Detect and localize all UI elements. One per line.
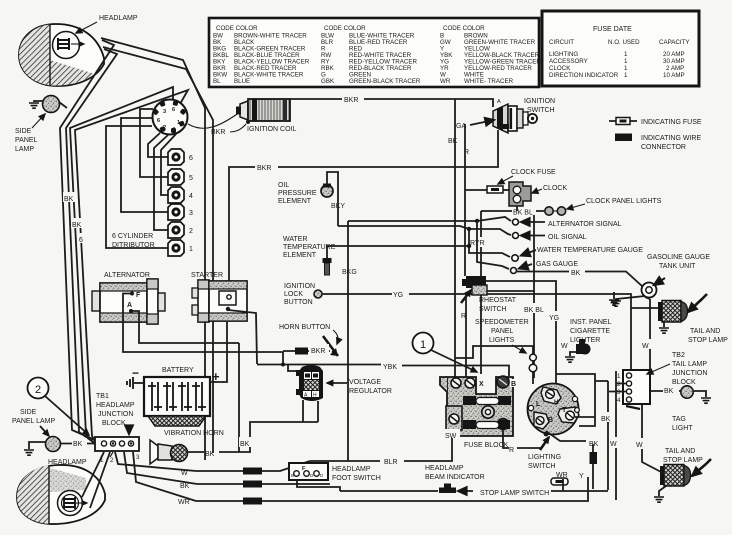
wire distributor to coil xyxy=(188,112,240,128)
wire TB2 to tag light + BK xyxy=(650,384,681,395)
svg-text:BLR: BLR xyxy=(384,459,398,466)
svg-text:BK: BK xyxy=(601,416,611,423)
wire alternator F xyxy=(123,294,283,364)
TB2 tail lamp junction block xyxy=(609,370,650,409)
label SW xyxy=(444,429,460,440)
svg-text:BEAM INDICATOR: BEAM INDICATOR xyxy=(425,474,485,481)
svg-text:30 AMP: 30 AMP xyxy=(663,58,685,65)
svg-text:B: B xyxy=(291,473,294,478)
lighting switch xyxy=(528,384,580,437)
wire B lug to BK connector xyxy=(546,431,586,441)
svg-text:HORN BUTTON: HORN BUTTON xyxy=(279,324,330,331)
svg-text:H: H xyxy=(313,393,317,399)
TB2 label + arrow xyxy=(647,352,707,386)
wire vertical x534 BK BL down xyxy=(533,215,535,378)
svg-text:T: T xyxy=(562,407,567,414)
wire bundle L2 xyxy=(66,49,117,444)
legend indicating fuse xyxy=(609,118,702,127)
tail and stop lamp (lower) xyxy=(654,448,711,502)
starter xyxy=(191,272,247,322)
wire vertical x650 W xyxy=(645,297,650,370)
svg-text:CODE COLOR: CODE COLOR xyxy=(324,25,366,32)
headlamp (top left) xyxy=(19,24,104,86)
wire BK BL + clock panel lights xyxy=(481,207,566,217)
wire fuse block R xyxy=(503,430,542,448)
svg-text:FUSE BLOCK: FUSE BLOCK xyxy=(464,442,509,449)
wires TB1 down to headlamp bulb xyxy=(82,452,104,497)
wire + indicating wire connector xyxy=(590,444,598,489)
svg-text:3: 3 xyxy=(136,454,140,461)
wire YBK right into fuse block B xyxy=(402,366,509,377)
svg-text:TAIL LAMP: TAIL LAMP xyxy=(672,361,707,368)
label BK xyxy=(71,218,85,229)
svg-text:TB2: TB2 xyxy=(672,352,685,359)
wire vertical x455 xyxy=(454,99,456,377)
svg-text:GREEN-BLACK TRACER: GREEN-BLACK TRACER xyxy=(349,78,421,85)
wire rheostat to YG vertical xyxy=(486,281,556,384)
clock panel lights label xyxy=(567,198,662,209)
svg-text:3: 3 xyxy=(189,210,193,217)
svg-text:LIGHTS: LIGHTS xyxy=(489,337,515,344)
svg-text:2: 2 xyxy=(35,384,41,396)
svg-text:4: 4 xyxy=(617,397,621,404)
svg-text:ELEMENT: ELEMENT xyxy=(278,198,312,205)
svg-text:4: 4 xyxy=(189,193,193,200)
wire headlamp to right vertical xyxy=(101,38,205,460)
svg-text:PRESSURE: PRESSURE xyxy=(278,190,317,197)
svg-text:BK BL: BK BL xyxy=(524,307,544,314)
gasoline gauge tank unit xyxy=(611,254,710,306)
svg-text:TAIL AND: TAIL AND xyxy=(690,328,720,335)
svg-text:PANEL: PANEL xyxy=(491,328,514,335)
fuse data table xyxy=(542,11,699,86)
wire horn BK xyxy=(187,343,318,458)
svg-text:ALTERNATOR SIGNAL: ALTERNATOR SIGNAL xyxy=(548,221,622,228)
wire vertical x642 to lower tail lamp xyxy=(642,405,663,473)
wire stop lamp line y491 xyxy=(340,490,608,492)
spark plugs 6..1 xyxy=(168,149,193,165)
svg-text:LIGHTER: LIGHTER xyxy=(570,337,600,344)
node 1 circled xyxy=(413,333,478,373)
wire vertical x616 down xyxy=(615,383,617,500)
svg-text:W: W xyxy=(642,343,649,350)
svg-text:BL: BL xyxy=(213,78,221,85)
svg-text:VOLTAGE: VOLTAGE xyxy=(349,379,381,386)
wire BKG vertical xyxy=(347,221,349,461)
svg-text:6: 6 xyxy=(189,155,193,162)
svg-text:SIDE: SIDE xyxy=(20,409,37,416)
gas gauge terminal xyxy=(477,221,578,274)
rheostat switch xyxy=(461,276,487,303)
wire vertical x608 BK xyxy=(595,381,608,490)
clock fuse label xyxy=(498,169,556,184)
svg-text:PANEL: PANEL xyxy=(15,137,38,144)
wire WR bottom xyxy=(178,477,588,506)
svg-text:TANK UNIT: TANK UNIT xyxy=(659,263,696,270)
svg-text:VIBRATION HORN: VIBRATION HORN xyxy=(164,430,224,437)
oil signal terminal xyxy=(338,226,587,241)
svg-text:DIRECTION INDICATOR: DIRECTION INDICATOR xyxy=(549,72,619,79)
svg-text:B: B xyxy=(511,381,516,388)
wire TB1 to BK line xyxy=(124,452,197,484)
wire battery + to starter xyxy=(210,321,227,382)
svg-text:H: H xyxy=(554,399,559,406)
svg-text:1: 1 xyxy=(624,72,628,79)
svg-text:CAPACITY: CAPACITY xyxy=(659,39,689,46)
svg-text:SW: SW xyxy=(445,433,457,440)
svg-text:BK: BK xyxy=(571,270,581,277)
wire W bottom xyxy=(181,461,310,477)
label RYR xyxy=(469,237,490,247)
node junction xyxy=(281,363,285,367)
alternator signal terminal xyxy=(348,217,622,228)
svg-text:FUSE DATE: FUSE DATE xyxy=(593,26,632,33)
wire loop right of lighting switch xyxy=(556,374,595,426)
GA label + arrow xyxy=(456,120,494,130)
svg-text:Y: Y xyxy=(579,473,584,480)
svg-text:BKY: BKY xyxy=(331,203,345,210)
svg-text:IGNITION: IGNITION xyxy=(284,283,315,290)
svg-text:OIL: OIL xyxy=(278,182,289,189)
svg-text:STOP LAMP: STOP LAMP xyxy=(688,337,728,344)
svg-text:WHITE- TRACER: WHITE- TRACER xyxy=(464,78,514,85)
svg-text:TAG: TAG xyxy=(672,416,686,423)
wire side lamp to TB1 xyxy=(61,443,95,445)
svg-text:BK: BK xyxy=(180,483,190,490)
svg-text:TB1: TB1 xyxy=(96,393,109,400)
svg-text:WR: WR xyxy=(556,472,568,479)
ignition switch S1 xyxy=(493,99,537,133)
svg-text:2: 2 xyxy=(163,125,166,131)
wire side panel lamp to bundle xyxy=(59,102,67,108)
ignition lock button xyxy=(284,283,322,306)
svg-text:6 CYLINDER: 6 CYLINDER xyxy=(112,233,153,240)
wire xyxy=(106,126,168,248)
side panel lamp (bottom) xyxy=(12,409,61,455)
wire regulator top to YBK xyxy=(288,364,296,371)
label BK xyxy=(72,438,87,448)
svg-text:3: 3 xyxy=(617,389,621,396)
svg-text:WR: WR xyxy=(178,499,190,506)
wire vertical x563 xyxy=(562,479,564,491)
svg-text:SWITCH: SWITCH xyxy=(527,107,555,114)
svg-text:20 AMP: 20 AMP xyxy=(663,51,685,58)
svg-text:CONNECTOR: CONNECTOR xyxy=(641,144,686,151)
svg-text:SWITCH: SWITCH xyxy=(528,463,556,470)
wire BK bottom xyxy=(180,481,330,491)
svg-text:BK: BK xyxy=(448,138,458,145)
speedometer panel lights xyxy=(455,345,537,384)
svg-text:RHEOSTAT: RHEOSTAT xyxy=(479,297,517,304)
svg-text:1: 1 xyxy=(420,339,426,351)
svg-text:CLOCK FUSE: CLOCK FUSE xyxy=(511,169,556,176)
svg-text:6: 6 xyxy=(157,118,160,124)
svg-text:2: 2 xyxy=(110,457,114,464)
svg-text:HEADLAMP: HEADLAMP xyxy=(332,466,371,473)
svg-text:BKG: BKG xyxy=(342,269,357,276)
svg-text:WR: WR xyxy=(440,78,451,85)
label 6 xyxy=(78,233,86,244)
voltage regulator xyxy=(296,365,323,401)
svg-text:6: 6 xyxy=(172,107,175,113)
svg-text:W: W xyxy=(636,442,643,449)
svg-text:BK: BK xyxy=(240,441,250,448)
wire xyxy=(161,134,176,195)
svg-text:F: F xyxy=(136,292,141,299)
fuse block xyxy=(440,376,517,436)
svg-text:IGNITION COIL: IGNITION COIL xyxy=(247,126,297,133)
wire xyxy=(90,452,110,508)
svg-text:CLOCK: CLOCK xyxy=(549,65,571,72)
svg-text:N.O. USED: N.O. USED xyxy=(608,39,640,46)
svg-text:PANEL LAMP: PANEL LAMP xyxy=(12,418,56,425)
wire bundle L4 (distributor cap) xyxy=(75,90,188,450)
svg-text:TAIL AND: TAIL AND xyxy=(665,448,695,455)
vibration horn xyxy=(150,430,224,464)
wire vertical x465 xyxy=(464,124,466,276)
wire TB1 to WR line xyxy=(133,452,196,501)
wire vertical x481 xyxy=(480,211,482,374)
svg-text:BLOCK: BLOCK xyxy=(102,420,126,427)
voltage regulator label xyxy=(327,379,392,395)
svg-text:BUTTON: BUTTON xyxy=(284,299,313,306)
wire YBK bus xyxy=(257,364,381,366)
svg-text:LIGHT: LIGHT xyxy=(672,425,693,432)
svg-text:ACCESSORY: ACCESSORY xyxy=(549,58,588,65)
svg-text:WATER TEMPERATURE GAUGE: WATER TEMPERATURE GAUGE xyxy=(537,247,643,254)
svg-text:YG: YG xyxy=(393,292,403,299)
ground above lighter xyxy=(609,292,619,305)
water temperature element xyxy=(323,246,470,275)
tail and stop lamp (upper) xyxy=(658,294,728,344)
side panel lamp (top) xyxy=(15,96,60,154)
svg-text:LIGHTING: LIGHTING xyxy=(528,454,561,461)
oil pressure element xyxy=(321,172,338,226)
svg-text:BKR: BKR xyxy=(211,129,225,136)
headlamp (bottom) xyxy=(17,459,105,524)
svg-text:STARTER: STARTER xyxy=(191,272,223,279)
wire xyxy=(487,290,534,292)
svg-text:10 AMP: 10 AMP xyxy=(663,72,685,79)
svg-text:6: 6 xyxy=(79,237,83,244)
svg-text:BK: BK xyxy=(205,451,215,458)
svg-text:HEADLAMP: HEADLAMP xyxy=(425,465,464,472)
svg-text:WATER: WATER xyxy=(283,236,308,243)
svg-text:LAMP: LAMP xyxy=(15,146,34,153)
wire BKR bus top xyxy=(290,99,493,107)
alternator xyxy=(92,272,165,324)
wire YG long y294 xyxy=(322,294,631,371)
wire BK to tank unit xyxy=(517,270,642,286)
label YG xyxy=(548,311,563,322)
wire from T lug xyxy=(575,416,595,418)
wire bundle L3 (distributor cap) xyxy=(70,87,173,448)
svg-text:1: 1 xyxy=(624,65,628,72)
color code table xyxy=(209,18,541,87)
water temperature gauge terminal xyxy=(467,229,643,261)
battery ground xyxy=(127,377,144,389)
headlamp foot switch xyxy=(289,463,328,480)
svg-text:HEADLAMP: HEADLAMP xyxy=(99,15,138,22)
svg-text:JUNCTION: JUNCTION xyxy=(98,411,133,418)
svg-text:BATTERY: BATTERY xyxy=(162,367,194,374)
label BK xyxy=(63,192,77,203)
svg-text:1: 1 xyxy=(617,373,621,380)
coil BKR label + leader xyxy=(211,124,246,136)
svg-text:W: W xyxy=(610,441,617,448)
svg-text:BLUE: BLUE xyxy=(234,78,250,85)
wire headlamp to right vertical 2 xyxy=(103,47,213,453)
lighting switch label + arrow xyxy=(528,437,561,470)
svg-text:SWITCH: SWITCH xyxy=(479,306,507,313)
svg-text:BKR: BKR xyxy=(257,165,271,172)
svg-text:1: 1 xyxy=(624,51,628,58)
svg-text:GBK: GBK xyxy=(321,78,335,85)
clock label xyxy=(532,185,567,193)
svg-text:3: 3 xyxy=(163,109,166,115)
svg-text:W: W xyxy=(181,470,188,477)
clock xyxy=(509,182,531,211)
svg-text:STOP LAMP: STOP LAMP xyxy=(663,457,703,464)
wire regulator bottom down xyxy=(303,400,318,422)
wire vertical x616 W xyxy=(615,371,617,383)
headlamp beam indicator xyxy=(425,465,485,493)
svg-text:5: 5 xyxy=(189,175,193,182)
svg-text:BK: BK xyxy=(664,388,674,395)
battery xyxy=(132,366,220,426)
svg-text:W: W xyxy=(561,343,568,350)
svg-text:YG: YG xyxy=(549,315,559,322)
wire xyxy=(148,133,168,157)
svg-text:BK BL: BK BL xyxy=(513,210,533,217)
svg-text:1: 1 xyxy=(189,246,193,253)
wire starter to YBK xyxy=(228,310,257,364)
wire bundle L1 xyxy=(60,40,114,440)
wire vertical x466 below rheostat xyxy=(465,295,467,377)
svg-text:2: 2 xyxy=(189,228,193,235)
svg-text:FOOT SWITCH: FOOT SWITCH xyxy=(332,475,381,482)
svg-text:BKR: BKR xyxy=(344,97,358,104)
wire BKR to horn button + connector xyxy=(283,344,330,355)
svg-text:INDICATING WIRE: INDICATING WIRE xyxy=(641,135,701,142)
wire xyxy=(121,118,168,212)
svg-text:CIGARETTE: CIGARETTE xyxy=(570,328,610,335)
TB1 headlamp junction block xyxy=(95,393,140,464)
wire BLR line xyxy=(310,460,380,462)
label BKR on bus xyxy=(342,93,364,104)
svg-text:X: X xyxy=(479,381,484,388)
svg-text:GASOLINE GAUGE: GASOLINE GAUGE xyxy=(647,254,710,261)
svg-text:L: L xyxy=(536,401,541,408)
plug wires xyxy=(140,109,168,177)
svg-text:GAS GAUGE: GAS GAUGE xyxy=(536,261,578,268)
svg-text:A: A xyxy=(127,302,132,309)
label BK BL xyxy=(523,303,545,314)
svg-text:A: A xyxy=(497,99,501,105)
svg-text:IGNITION: IGNITION xyxy=(524,98,555,105)
svg-text:REGULATOR: REGULATOR xyxy=(349,388,392,395)
svg-text:1: 1 xyxy=(177,120,180,126)
wire BLR up to fuse block SW xyxy=(404,438,452,461)
label W xyxy=(609,437,621,448)
svg-text:INST. PANEL: INST. PANEL xyxy=(570,319,612,326)
svg-text:CODE COLOR: CODE COLOR xyxy=(443,25,485,32)
svg-text:CODE COLOR: CODE COLOR xyxy=(216,25,258,32)
wire ignition switch to starter bus y167 xyxy=(229,130,498,297)
inst panel cigarette lighter xyxy=(565,339,591,362)
svg-text:BK: BK xyxy=(72,222,82,229)
svg-text:CLOCK: CLOCK xyxy=(543,185,567,192)
ignition coil C1 xyxy=(236,99,290,124)
svg-text:CIRCUIT: CIRCUIT xyxy=(549,39,574,46)
svg-text:2 AMP: 2 AMP xyxy=(666,65,684,72)
svg-text:CLOCK PANEL LIGHTS: CLOCK PANEL LIGHTS xyxy=(586,198,662,205)
stop lamp switch xyxy=(480,478,568,497)
wire to upper tail lamp xyxy=(631,307,658,309)
wire xyxy=(154,135,168,230)
legend indicating wire connector xyxy=(615,134,701,152)
distributor cap xyxy=(152,100,187,135)
svg-text:TEMPERATURE: TEMPERATURE xyxy=(283,244,336,251)
svg-text:OIL SIGNAL: OIL SIGNAL xyxy=(548,234,587,241)
clock fuse xyxy=(465,186,509,193)
label BK xyxy=(600,412,616,423)
svg-text:YBK: YBK xyxy=(383,364,397,371)
svg-text:SIDE: SIDE xyxy=(15,128,32,135)
wire TB1 to W line xyxy=(115,452,196,471)
svg-text:BKR: BKR xyxy=(311,348,325,355)
headlamp label xyxy=(76,15,138,33)
svg-text:LOCK: LOCK xyxy=(284,291,303,298)
svg-text:2: 2 xyxy=(617,381,621,388)
svg-text:HEADLAMP: HEADLAMP xyxy=(96,402,135,409)
label W xyxy=(634,438,647,449)
svg-text:ELEMENT: ELEMENT xyxy=(283,252,317,259)
label W xyxy=(641,339,653,350)
label BKR on y167 xyxy=(255,161,278,172)
svg-text:1: 1 xyxy=(624,58,628,65)
label BLR mid xyxy=(382,455,404,466)
svg-text:INDICATING FUSE: INDICATING FUSE xyxy=(641,119,702,126)
svg-text:R: R xyxy=(509,447,514,454)
svg-text:JUNCTION: JUNCTION xyxy=(672,370,707,377)
svg-text:BK: BK xyxy=(73,441,83,448)
svg-text:LIGHTING: LIGHTING xyxy=(549,51,578,58)
svg-text:ALTERNATOR: ALTERNATOR xyxy=(104,272,150,279)
svg-text:SPEEDOMETER: SPEEDOMETER xyxy=(475,319,529,326)
svg-text:STOP LAMP SWITCH: STOP LAMP SWITCH xyxy=(480,490,549,497)
svg-text:BK: BK xyxy=(64,196,74,203)
label YG on wire xyxy=(392,288,409,299)
node 2 circled xyxy=(28,378,90,436)
wire alternator A xyxy=(131,311,239,343)
tag light xyxy=(672,386,711,432)
svg-text:B: B xyxy=(548,417,553,424)
wire foot switch bottom xyxy=(297,480,340,491)
horn button xyxy=(279,324,338,356)
